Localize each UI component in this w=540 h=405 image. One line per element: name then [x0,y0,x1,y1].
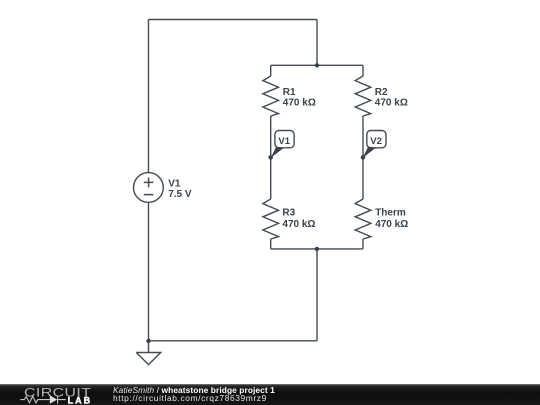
wire: left rail above V1 [148,20,150,173]
node: bridge bottom junction [315,247,319,251]
node: probe V2 attach [361,155,366,160]
svg-text:R2: R2 [375,87,388,98]
footer bar [0,384,540,405]
wire: top rail from V1+ to bridge feed [149,19,318,21]
wire: left rail below V1 [148,203,150,341]
probe flag V1 tail [271,147,284,158]
CircuitLab logo [14,383,110,405]
ground [136,341,160,365]
resistor Therm [355,199,371,239]
node: probe V1 attach [268,155,273,160]
resistor R2 [355,76,371,116]
wire: bridge top rail [271,64,363,66]
svg-text:470 kΩ: 470 kΩ [283,98,316,109]
wire: right branch middle [362,116,364,199]
wire: right branch upper lead [362,65,364,76]
probe flag V1 box [275,131,294,148]
wire: right branch lower lead [362,239,364,249]
voltage source V1 [134,173,164,203]
svg-text:R1: R1 [283,87,296,98]
wire: left branch middle [270,116,272,199]
wire: bridge top feed vertical [316,20,318,66]
svg-text:Therm: Therm [375,208,406,219]
wire: bridge bottom rail [271,248,363,250]
svg-text:7.5 V: 7.5 V [168,189,192,200]
probe flag V2 tail [363,147,376,158]
node: bridge top junction [315,63,319,67]
footer credits [113,386,275,403]
svg-text:V2: V2 [370,136,382,147]
probe flag V2 box [367,131,386,148]
node: ground junction [146,339,150,343]
svg-text:470 kΩ: 470 kΩ [375,219,408,230]
resistor R1 [263,76,279,116]
resistor R3 [263,199,279,239]
wire: bottom rail [149,340,318,342]
wire: left branch lower lead [270,239,272,249]
svg-text:V1: V1 [168,179,181,190]
svg-text:LAB: LAB [68,395,93,405]
wire: left branch upper lead [270,65,272,76]
svg-text:V1: V1 [278,136,290,147]
svg-text:470 kΩ: 470 kΩ [282,219,315,230]
wire: bridge bottom feed vertical [316,249,318,341]
svg-text:R3: R3 [282,208,295,219]
svg-text:470 kΩ: 470 kΩ [375,98,408,109]
